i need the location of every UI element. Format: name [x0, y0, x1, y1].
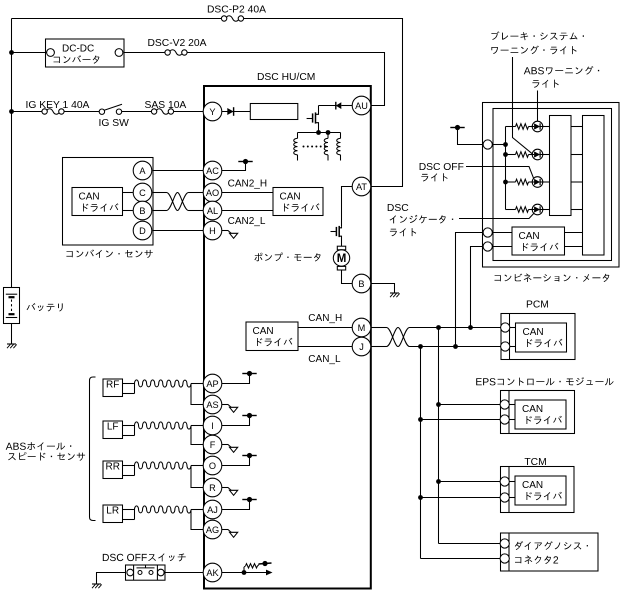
- junction: CAN_H drop to EPS/TCM/diagnosis: [436, 325, 441, 330]
- power tap: AC: [238, 159, 252, 164]
- label: ABS wheel/speed sensor line1: [6, 442, 72, 450]
- label: EPS control module: [476, 377, 613, 386]
- svg-text:AP: AP: [206, 379, 218, 389]
- fuse IG KEY 1 40A: [42, 107, 64, 116]
- svg-text:IG SW: IG SW: [99, 118, 130, 129]
- DC-DC converter box: [46, 39, 125, 67]
- svg-text:CAN: CAN: [522, 480, 543, 491]
- svg-text:M: M: [358, 323, 366, 333]
- wire: CAN driver to B: [123, 210, 133, 212]
- wire: ABS warning lamp to MCU: [543, 126, 550, 128]
- pointer: DSC OFF light: [466, 167, 534, 179]
- wire: CAN_H to meter lower CAN terminal: [471, 247, 484, 328]
- terminal B (combine sensor): [133, 201, 152, 220]
- wire: M to twisted pair (CAN_H): [371, 327, 387, 329]
- svg-text:I: I: [211, 421, 214, 431]
- junction: valve coil 2 tap: [326, 130, 331, 135]
- wire: CAN driver to C: [123, 192, 133, 194]
- svg-text:A: A: [139, 166, 146, 176]
- terminal J (DSC HU/CM): [352, 337, 371, 356]
- ground: sensor return: [228, 488, 238, 496]
- wire: C to twisted pair: [152, 192, 166, 194]
- pickup coil: LF sensor: [135, 422, 192, 429]
- wire: switch to chassis ground: [97, 573, 127, 585]
- bracket: ABS wheel speed sensor group: [90, 377, 96, 521]
- junction: CAN_L rise to meter: [453, 344, 458, 349]
- wire: LR sensor leads: [123, 510, 135, 520]
- wire: DC-DC converter input: [12, 52, 47, 54]
- svg-text:Y: Y: [209, 107, 215, 117]
- pointer: brake system warning light: [513, 57, 533, 154]
- meter terminal: CAN lower: [483, 242, 492, 251]
- label: ABS warning light line1: [524, 66, 599, 75]
- fuse DSC-P2 40A: [221, 14, 243, 23]
- meter display block: [583, 116, 605, 256]
- DSC HU/CM control unit box: [204, 86, 371, 589]
- wire: DSC indicator lamp row: [506, 209, 516, 211]
- wire: pull-up for sensor input (y=465.5): [222, 458, 250, 466]
- wire: AT to pump motor FET: [342, 187, 353, 227]
- wire: battery negative to ground: [11, 324, 13, 345]
- wheel speed sensor RR box: [103, 461, 123, 479]
- wire: LF coil to upper terminal: [191, 425, 203, 427]
- ground: sensor return: [228, 445, 238, 453]
- pointer: ABS warning light: [537, 91, 539, 122]
- terminal AO (DSC HU/CM): [203, 183, 222, 202]
- junction: lamp bus row2: [503, 152, 508, 157]
- MOSFET Q2 gate stub: [331, 231, 336, 233]
- wire: diode D2 to AU: [341, 105, 352, 107]
- wire: AK internal: [222, 572, 267, 574]
- solenoid valve coil L3: [337, 133, 341, 161]
- wire: pump motor to B: [342, 270, 353, 284]
- pickup coil: LR sensor: [135, 506, 192, 513]
- meter terminal: battery feed: [483, 140, 492, 149]
- MOSFET Q1 gate stub: [307, 118, 312, 120]
- junction: CAN_L drop to EPS/TCM/diagnosis: [418, 344, 423, 349]
- wire: CAN_H bus to PCM: [410, 327, 502, 329]
- wire: B to twisted pair: [152, 210, 166, 212]
- pump motor M1: [333, 246, 349, 270]
- terminal AJ (DSC HU/CM): [203, 500, 222, 519]
- label: DSC OFF switch (DSC OFFスイッチ): [103, 553, 186, 561]
- terminal AT (DSC HU/CM): [352, 177, 371, 196]
- svg-text:LR: LR: [106, 506, 119, 517]
- CAN driver U3 (DSC HU/CM, vehicle CAN): [246, 322, 298, 351]
- wire: AO to CAN2 driver (CAN2_H): [222, 192, 273, 194]
- svg-text:CAN_H: CAN_H: [308, 313, 342, 324]
- svg-text:B: B: [358, 279, 364, 289]
- pointer: DSC indicator light: [459, 213, 534, 218]
- wire: pull-up for sensor input (y=425.5): [222, 418, 250, 426]
- svg-text:DC-DC: DC-DC: [62, 44, 94, 55]
- wire: DSC OFF lamp to MCU: [543, 181, 550, 183]
- svg-text:DSC-V2 20A: DSC-V2 20A: [148, 38, 207, 49]
- wire: AC to battery tap: [222, 163, 246, 171]
- junction: lamp bus row3: [503, 180, 508, 185]
- svg-text:CAN: CAN: [522, 404, 543, 415]
- wire: CAN_L to TCM: [421, 497, 501, 499]
- wire: sensor return to ground (y=529.5): [222, 529, 229, 531]
- wire: meter CAN driver to display 2: [565, 246, 583, 248]
- diode D2 (from terminal AU): [336, 102, 342, 110]
- PCM box with CAN driver: [501, 314, 575, 360]
- wire: pull-up for sensor input (y=509.5): [222, 502, 250, 510]
- wire: brake system warning lamp row: [506, 154, 516, 156]
- svg-text:H: H: [209, 226, 216, 236]
- svg-text:AG: AG: [206, 525, 219, 535]
- svg-text:M: M: [337, 253, 347, 265]
- label: combine sensor (コンバイン・センサ): [66, 250, 152, 259]
- junction: TCM CAN_H: [436, 479, 441, 484]
- terminal M (DSC HU/CM): [352, 318, 371, 337]
- ground: sensor return: [228, 530, 238, 538]
- wire: CAN_L to diagnosis connector: [421, 558, 501, 560]
- power tap: sensor input: [242, 413, 256, 418]
- wire: MCU to display block: [571, 181, 583, 183]
- wire: sensor return to ground (y=487.5): [222, 487, 229, 489]
- MOSFET Q1: [313, 106, 319, 133]
- power tap: sensor input: [242, 371, 256, 376]
- wire: battery positive rail (left vertical): [11, 19, 13, 289]
- twisted pair: CAN2 bus: [167, 193, 189, 211]
- wire: A to AC: [152, 170, 203, 172]
- resistor R1: AK pull-up: [244, 564, 259, 573]
- junction: lamp bus feed: [503, 142, 508, 147]
- lamp LED: DSC indicator lamp: [532, 204, 543, 215]
- diagnosis connector 2 box: [500, 533, 598, 571]
- wire: LR coil to lower terminal: [191, 510, 203, 530]
- switch IG SW: [99, 104, 122, 117]
- wire: solenoid valve supply bus: [298, 132, 341, 134]
- meter terminal: CAN upper: [483, 228, 492, 237]
- wire: MCU to display block: [571, 209, 583, 211]
- wire: MCU to display block: [571, 126, 583, 128]
- wire: RR coil to upper terminal: [191, 465, 203, 467]
- terminal C (combine sensor): [133, 183, 152, 202]
- label: brake system warning light line2: [491, 46, 576, 55]
- resistor: DSC OFF lamp: [516, 179, 529, 185]
- wire: D to H: [152, 230, 203, 232]
- power tap: sensor input: [242, 453, 256, 458]
- wire: Q1 drain to diode D2: [319, 105, 336, 107]
- svg-text:AT: AT: [356, 182, 367, 192]
- terminal B (DSC HU/CM): [352, 274, 371, 293]
- label: combination meter (コンビネーション・メータ): [495, 274, 610, 283]
- wire: pull-up for sensor input (y=383.5): [222, 376, 250, 384]
- resistor: brake system warning lamp: [516, 152, 529, 158]
- wire: RF coil to lower terminal: [191, 384, 203, 405]
- terminal AK (DSC HU/CM): [203, 563, 222, 582]
- wire: DSC OFF switch to AK: [165, 572, 203, 574]
- svg-text:PCM: PCM: [526, 300, 549, 311]
- label: ABS wheel/speed sensor line2: [8, 452, 85, 461]
- wire: CAN_L bus to PCM: [410, 346, 502, 348]
- ground: DSC OFF switch: [92, 584, 102, 588]
- twisted pair: vehicle CAN bus: [387, 328, 410, 347]
- svg-text:AO: AO: [206, 188, 219, 198]
- meter MCU block: [550, 116, 572, 216]
- terminal D (combine sensor): [133, 221, 152, 240]
- label: battery (バッテリ): [27, 303, 63, 312]
- lamp LED: DSC OFF lamp: [532, 177, 543, 188]
- label: DSC indicator light line3: [390, 228, 416, 236]
- junction: EPS CAN_L: [418, 417, 423, 422]
- wire: meter CAN driver to display: [565, 232, 583, 234]
- combination meter outer box: [483, 103, 620, 268]
- label: brake system warning light line1: [491, 31, 584, 40]
- svg-text:DSC HU/CM: DSC HU/CM: [257, 72, 315, 83]
- junction: AK pull-up: [242, 570, 247, 575]
- wire: RF coil to upper terminal: [191, 383, 203, 385]
- CAN driver U2 (DSC HU/CM, CAN2): [273, 188, 323, 216]
- wire: DSC OFF lamp row: [506, 181, 516, 183]
- wire: J to twisted pair (CAN_L): [371, 346, 387, 348]
- power tap: AK pull-up: [259, 561, 272, 566]
- wire: CAN driver to J (CAN_L): [298, 346, 352, 348]
- ground: terminal B: [390, 293, 400, 297]
- label: pump motor (ポンプ・モータ): [254, 253, 320, 262]
- terminal AP (DSC HU/CM): [203, 374, 222, 393]
- wheel speed sensor RF box: [103, 379, 123, 397]
- svg-text:DSC: DSC: [387, 203, 409, 214]
- svg-text:LF: LF: [107, 422, 119, 433]
- wheel speed sensor LR box: [103, 505, 123, 523]
- svg-text:RF: RF: [106, 380, 119, 391]
- pickup coil: RF sensor: [135, 380, 192, 387]
- pickup coil: RR sensor: [135, 462, 192, 469]
- wire: CAN_H vertical drop: [438, 328, 440, 544]
- lamp LED: ABS warning lamp: [532, 121, 543, 132]
- fuse DSC-V2 20A: [165, 48, 187, 57]
- TCM box with CAN driver: [500, 467, 574, 513]
- svg-text:CAN2_L: CAN2_L: [228, 216, 266, 227]
- terminal O (DSC HU/CM): [203, 456, 222, 475]
- ground: sensor return: [228, 405, 238, 413]
- wire: meter CAN lower terminal to driver: [492, 246, 512, 248]
- junction: rail to IG KEY line: [9, 109, 14, 114]
- wire: CAN_H to TCM: [439, 481, 501, 483]
- wire: twisted pair to AO: [189, 192, 204, 194]
- wire: LR coil to upper terminal: [191, 509, 203, 511]
- svg-text:F: F: [210, 440, 216, 450]
- svg-text:DSC-P2 40A: DSC-P2 40A: [207, 5, 266, 16]
- combination meter inner box: [493, 109, 612, 261]
- svg-text:RR: RR: [105, 462, 119, 473]
- terminal I (DSC HU/CM): [203, 416, 222, 435]
- svg-text:O: O: [209, 461, 216, 471]
- svg-text:AJ: AJ: [207, 505, 218, 515]
- svg-text:CAN: CAN: [280, 192, 301, 203]
- combine sensor box: [63, 158, 154, 246]
- wire: CAN_L to meter upper CAN terminal: [456, 233, 484, 347]
- wire: Y to diode to relay rect: [222, 111, 251, 113]
- solenoid valve coil L2: [324, 133, 328, 161]
- wire: H to signal ground: [222, 230, 229, 232]
- wire: DSC indicator lamp to MCU: [543, 209, 550, 211]
- label: ABS warning light line2: [532, 80, 558, 88]
- terminal AL (DSC HU/CM): [203, 201, 222, 220]
- junction: CAN_H rise to meter: [468, 325, 473, 330]
- terminal AU (DSC HU/CM): [352, 96, 371, 115]
- wheel speed sensor LF box: [103, 421, 123, 439]
- svg-text:CAN: CAN: [523, 327, 544, 338]
- wire: meter battery tap: [458, 129, 484, 145]
- ellipsis dots between valve coils: [303, 146, 327, 148]
- wire: sensor return to ground (y=444.5): [222, 444, 229, 446]
- terminal R (DSC HU/CM): [203, 478, 222, 497]
- svg-text:DSC OFF: DSC OFF: [419, 162, 464, 173]
- svg-text:AL: AL: [207, 206, 218, 216]
- wire: meter lamp supply bus: [492, 144, 505, 146]
- DSC OFF momentary switch: [126, 565, 166, 580]
- svg-text:IG KEY 1 40A: IG KEY 1 40A: [26, 100, 90, 111]
- wire: AL to CAN2 driver (CAN2_L): [222, 210, 273, 212]
- ground: battery: [7, 344, 17, 348]
- fuse SAS 10A: [151, 107, 173, 116]
- label: DSC indicator light line2: [390, 215, 454, 224]
- MOSFET Q2: [336, 226, 341, 246]
- svg-text:CAN_L: CAN_L: [308, 354, 341, 365]
- svg-text:C: C: [139, 188, 146, 198]
- wire: MCU to display block: [571, 154, 583, 156]
- wire: meter CAN upper terminal to driver: [492, 232, 512, 234]
- wire: DSC-P2 40A feed (top horizontal): [12, 19, 403, 187]
- battery: [4, 288, 20, 324]
- wire: twisted pair to AL: [189, 210, 204, 212]
- CAN driver U4 (combine sensor): [72, 188, 123, 216]
- wire: LF sensor leads: [123, 426, 135, 436]
- svg-text:AU: AU: [355, 101, 368, 111]
- wire: RR coil to lower terminal: [191, 466, 203, 488]
- svg-text:AC: AC: [206, 166, 219, 176]
- resistor: ABS warning lamp: [516, 124, 529, 130]
- wire: LF coil to lower terminal: [191, 426, 203, 445]
- svg-text:AK: AK: [206, 568, 219, 578]
- lamp LED: brake system warning lamp: [532, 149, 543, 160]
- terminal AS (DSC HU/CM): [203, 395, 222, 414]
- EPS control module box with CAN driver: [500, 391, 574, 434]
- wire: DC-DC output to DSC-V2 fuse and AU: [124, 53, 385, 106]
- label: DSC OFF light line2: [421, 173, 447, 181]
- terminal H (DSC HU/CM): [203, 221, 222, 240]
- junction: rail to DC-DC line: [9, 50, 14, 55]
- arrowhead: AK signal continues: [266, 570, 273, 576]
- wire: ABS warning lamp row: [506, 126, 516, 128]
- wire: CAN_H to diagnosis connector: [439, 543, 501, 545]
- wire: CAN_L vertical drop: [420, 347, 422, 559]
- svg-text:B: B: [139, 206, 145, 216]
- svg-text:SAS 10A: SAS 10A: [145, 100, 187, 111]
- terminal AC (DSC HU/CM): [203, 161, 222, 180]
- svg-text:CAN: CAN: [253, 326, 274, 337]
- terminal F (DSC HU/CM): [203, 435, 222, 454]
- CAN driver U5 (combination meter): [512, 227, 565, 255]
- wire: B to chassis ground: [371, 284, 395, 294]
- svg-text:J: J: [359, 342, 364, 352]
- junction: TCM CAN_L: [418, 495, 423, 500]
- wire: CAN_H to EPS: [439, 404, 501, 406]
- wire: CAN_L to EPS: [421, 419, 501, 421]
- power tap: sensor input: [242, 497, 256, 502]
- svg-text:R: R: [209, 483, 216, 493]
- wire: brake system warning lamp to MCU: [543, 154, 550, 156]
- terminal AG (DSC HU/CM): [203, 520, 222, 539]
- svg-text:CAN2_H: CAN2_H: [228, 179, 267, 190]
- svg-text:D: D: [139, 226, 146, 236]
- wire: IG KEY 1 feed: [12, 111, 204, 113]
- terminal Y (DSC HU/CM): [203, 102, 222, 121]
- junction: Q1 source to valve bus: [316, 130, 321, 135]
- resistor: DSC indicator lamp: [516, 207, 529, 213]
- relay/coil rectangle: [250, 104, 297, 120]
- svg-text:CAN: CAN: [79, 192, 100, 203]
- power tap: combination meter: [450, 125, 464, 130]
- wire: sensor return to ground (y=404.5): [222, 404, 229, 406]
- svg-text:AS: AS: [206, 400, 218, 410]
- diode D1 (after terminal Y): [227, 107, 233, 116]
- wire: RR sensor leads: [123, 466, 135, 476]
- terminal A (combine sensor): [133, 161, 152, 180]
- junction: EPS CAN_H: [436, 402, 441, 407]
- wire: CAN driver to M (CAN_H): [298, 327, 352, 329]
- ground: terminal H: [228, 231, 238, 239]
- svg-text:CAN: CAN: [519, 231, 540, 242]
- solenoid valve coil L1: [294, 133, 298, 161]
- wire: RF sensor leads: [123, 384, 135, 394]
